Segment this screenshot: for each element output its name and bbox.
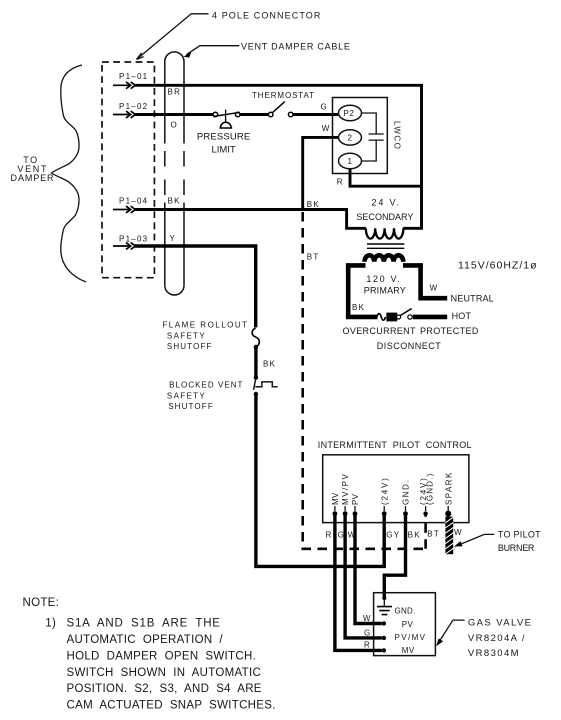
terminal 2	[339, 130, 362, 145]
svg-text:BK: BK	[168, 197, 181, 206]
svg-text:PV: PV	[351, 493, 360, 505]
svg-text:120 V.: 120 V.	[366, 274, 401, 284]
svg-text:BK: BK	[307, 200, 320, 209]
svg-text:SWITCH SHOWN IN AUTOMATIC: SWITCH SHOWN IN AUTOMATIC	[67, 667, 262, 679]
svg-text:S1A AND S1B ARE THE: S1A AND S1B ARE THE	[67, 618, 221, 630]
svg-text:GND.: GND.	[402, 479, 411, 505]
wire W: LWCO 2 down to BK junction	[303, 137, 339, 209]
svg-text:DISCONNECT: DISCONNECT	[377, 341, 442, 351]
terminal MV/PV	[341, 473, 350, 516]
terminal PV	[351, 493, 360, 516]
svg-text:GY: GY	[386, 531, 400, 540]
svg-text:BK: BK	[263, 360, 276, 369]
svg-text:W: W	[430, 283, 438, 292]
label: FLAME ROLLOUT SAFETY SHUTOFF	[162, 321, 248, 351]
arrow chevrons P1-04	[126, 206, 135, 213]
svg-text:SHUTOFF: SHUTOFF	[167, 342, 213, 351]
node label: TO VENT DAMPER	[11, 155, 55, 183]
svg-text:THERMOSTAT: THERMOSTAT	[252, 91, 315, 100]
svg-text:BT: BT	[427, 530, 440, 539]
svg-text:POSITION. S2, S3, AND S4 ARE: POSITION. S2, S3, AND S4 ARE	[67, 683, 262, 695]
svg-text:MV/PV: MV/PV	[341, 473, 350, 505]
switch: thermostat	[268, 102, 293, 117]
svg-text:OVERCURRENT PROTECTED: OVERCURRENT PROTECTED	[342, 326, 478, 336]
connector P1 dashed box	[102, 62, 154, 278]
svg-text:SAFETY: SAFETY	[167, 332, 206, 341]
junction dot	[254, 345, 258, 349]
svg-text:P1–01: P1–01	[119, 72, 148, 81]
svg-text:P1–04: P1–04	[119, 197, 148, 206]
svg-text:HOT: HOT	[452, 311, 472, 321]
disconnect switch plug contact	[397, 315, 401, 319]
svg-text:NOTE:: NOTE:	[23, 597, 60, 609]
svg-text:P2: P2	[344, 109, 355, 118]
wire P1-04 lead	[113, 209, 130, 211]
disconnect switch squiggle	[377, 314, 386, 321]
svg-text:CAM ACTUATED SNAP SWITCHES.: CAM ACTUATED SNAP SWITCHES.	[67, 700, 276, 712]
wire BT dashed riser to (24V)(GND.) terminal	[424, 515, 427, 549]
terminal (24V)(GND.)	[419, 472, 434, 515]
switch: blocked vent actuator step	[255, 382, 277, 387]
svg-text:BURNER: BURNER	[498, 543, 535, 553]
wire: pressure limit to thermostat	[240, 113, 269, 116]
terminal 1	[339, 153, 362, 168]
svg-text:24 V.: 24 V.	[371, 198, 400, 208]
disconnect switch arm	[400, 309, 411, 316]
wire BT dashed vertical	[301, 212, 304, 549]
terminal dot PV	[382, 621, 386, 625]
svg-text:P1–02: P1–02	[119, 102, 148, 111]
svg-text:G: G	[364, 628, 371, 637]
intermittent pilot control box	[323, 455, 469, 523]
terminal dot PV/MV	[382, 636, 386, 640]
disconnect switch plug	[386, 313, 397, 322]
label: 4 POLE CONNECTOR	[137, 10, 322, 59]
svg-text:BK: BK	[408, 531, 421, 540]
svg-text:VR8204A /: VR8204A /	[468, 633, 526, 644]
terminal GND.	[402, 479, 411, 516]
wire BK: pilot GND to gas valve ground	[384, 514, 405, 599]
note text block	[23, 597, 276, 711]
svg-text:1: 1	[348, 157, 353, 166]
svg-text:DAMPER: DAMPER	[11, 173, 55, 183]
wire R: LWCO 1 to right bus	[350, 169, 421, 187]
wire: primary right side W to NEUTRAL	[403, 265, 447, 298]
LWCO box	[333, 98, 388, 174]
wire BR: P1-01 to transformer right side	[134, 85, 422, 228]
svg-text:G: G	[321, 102, 328, 111]
sensor: flame rollout fusible link	[252, 328, 259, 347]
label: VENT DAMPER CABLE	[184, 41, 351, 57]
svg-text:Y: Y	[170, 234, 176, 243]
arrow chevrons P1-03	[126, 243, 135, 250]
wire: primary left side BK	[348, 265, 377, 317]
terminal MV	[331, 492, 340, 516]
svg-text:R: R	[326, 531, 332, 540]
svg-text:PV/MV: PV/MV	[395, 633, 427, 642]
svg-text:HOLD DAMPER OPEN SWITCH.: HOLD DAMPER OPEN SWITCH.	[67, 650, 257, 662]
svg-text:NEUTRAL: NEUTRAL	[451, 293, 494, 303]
transformer T1 120V primary winding	[365, 255, 404, 261]
svg-text:PV: PV	[402, 620, 414, 629]
ground symbol	[377, 607, 392, 615]
arrow chevrons P1-01	[126, 82, 135, 89]
terminal P2	[339, 105, 362, 120]
svg-text:VENT DAMPER CABLE: VENT DAMPER CABLE	[241, 41, 351, 51]
wire G: thermostat to LWCO P2	[293, 113, 338, 116]
terminal (24V)	[380, 476, 389, 516]
svg-text:R: R	[364, 641, 370, 650]
svg-text:SHUTOFF: SHUTOFF	[168, 402, 214, 411]
wire P1-02 lead	[113, 114, 130, 116]
svg-text:P1–03: P1–03	[119, 235, 148, 244]
svg-text:INTERMITTENT PILOT CONTROL: INTERMITTENT PILOT CONTROL	[318, 440, 472, 450]
label: TO PILOT BURNER	[454, 529, 541, 553]
arrow chevrons P1-02	[126, 111, 135, 118]
svg-text:LIMIT: LIMIT	[211, 145, 235, 156]
spark igniter cable to pilot burner	[445, 517, 453, 555]
svg-text:W: W	[363, 614, 371, 623]
svg-text:BT: BT	[307, 253, 320, 262]
switch: blocked vent arm	[254, 378, 256, 390]
svg-text:PRIMARY: PRIMARY	[364, 286, 406, 296]
junction dot	[254, 392, 258, 396]
svg-text:W: W	[322, 124, 330, 133]
terminal SPARK	[444, 471, 453, 516]
transformer core lines	[367, 244, 404, 248]
junction dot at ground wire	[382, 596, 386, 600]
svg-text:LWCO: LWCO	[393, 121, 402, 150]
wire R: pilot MV to gas valve MV	[335, 514, 382, 651]
svg-text:115V/60HZ/1ø: 115V/60HZ/1ø	[458, 259, 538, 271]
gas valve box	[374, 593, 436, 656]
wire O: P1-02 to pressure limit	[134, 113, 213, 116]
junction dot	[254, 375, 258, 379]
svg-text:FLAME ROLLOUT: FLAME ROLLOUT	[162, 321, 248, 330]
wire W: pilot PV to gas valve PV	[355, 514, 382, 624]
wire BT dashed horizontal	[302, 547, 426, 550]
vent damper cable sheath	[165, 52, 184, 295]
svg-text:SPARK: SPARK	[444, 471, 453, 505]
svg-text:BK: BK	[352, 303, 365, 312]
svg-text:O: O	[171, 120, 178, 129]
svg-text:GAS VALVE: GAS VALVE	[468, 618, 533, 629]
wire P1-03 lead	[113, 245, 130, 247]
label: BLOCKED VENT SAFETY SHUTOFF	[167, 381, 244, 411]
svg-text:1): 1)	[45, 618, 56, 630]
svg-text:AUTOMATIC OPERATION /: AUTOMATIC OPERATION /	[67, 634, 224, 646]
wire BK: P1-04 to transformer secondary	[134, 210, 366, 229]
svg-text:SECONDARY: SECONDARY	[356, 212, 413, 222]
svg-text:(GND.): (GND.)	[425, 472, 434, 505]
svg-text:SAFETY: SAFETY	[167, 392, 206, 401]
svg-text:PRESSURE: PRESSURE	[197, 132, 250, 143]
svg-text:GND.: GND.	[395, 606, 416, 615]
svg-text:(24V): (24V)	[380, 476, 389, 505]
svg-text:2: 2	[348, 134, 353, 143]
wire P1-01 lead	[113, 84, 130, 86]
capacitor inside LWCO	[362, 113, 384, 161]
svg-text:MV: MV	[331, 492, 340, 505]
wire BK/GY: blocked vent down to pilot control (24V)	[256, 394, 384, 566]
wire HOT	[413, 315, 447, 320]
svg-text:BR: BR	[168, 88, 182, 97]
svg-text:BLOCKED VENT: BLOCKED VENT	[169, 381, 243, 390]
brace: to vent damper	[52, 65, 87, 282]
svg-text:R: R	[337, 177, 343, 186]
wire G: pilot MV/PV to gas valve PV/MV	[345, 514, 382, 638]
svg-text:W: W	[454, 528, 462, 537]
disconnect switch contact	[408, 315, 412, 319]
switch: pressure limit	[213, 110, 240, 128]
label: GAS VALVE VR8204A / VR8304M	[436, 618, 532, 660]
svg-text:MV: MV	[402, 646, 415, 655]
transformer T1 24V secondary winding	[366, 228, 404, 238]
svg-text:VR8304M: VR8304M	[468, 648, 520, 659]
wire Y: P1-03 down to flame rollout	[134, 246, 256, 327]
svg-text:4 POLE CONNECTOR: 4 POLE CONNECTOR	[212, 10, 321, 20]
terminal dot MV	[382, 648, 386, 652]
svg-text:TO PILOT: TO PILOT	[498, 529, 541, 539]
wire between safeties	[254, 348, 257, 378]
